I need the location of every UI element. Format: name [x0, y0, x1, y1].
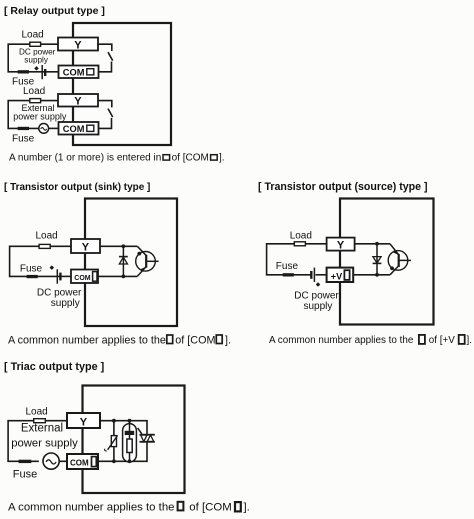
svg-text:power supply: power supply [11, 437, 78, 449]
wire: triac left/top/bottom rail [8, 421, 67, 462]
svg-text:of [COM: of [COM [175, 334, 215, 346]
wire: sink left/top/bottom rail [10, 246, 71, 276]
svg-text:].: ]. [244, 501, 250, 513]
transistor (sink NPN in circle) [136, 246, 159, 276]
svg-text:].: ]. [467, 335, 473, 346]
resistor: Load (source) [294, 242, 305, 246]
terminal box +V (source) [327, 268, 354, 282]
resistor: Load (circuit 1) [30, 42, 41, 46]
junction dot: diode bottom (source) [375, 273, 379, 277]
svg-text:[ Transistor output (source) t: [ Transistor output (source) type ] [258, 181, 428, 193]
resistor: Load (circuit 2) [30, 99, 41, 103]
svg-text:Load: Load [22, 30, 44, 41]
svg-text:COM: COM [70, 459, 89, 468]
caption 2 tall-rect glyph b [216, 335, 222, 344]
varistor branch wire [113, 421, 115, 462]
wire: relay circuit 1 left/top/bottom rail [8, 44, 58, 72]
svg-text:supply: supply [304, 301, 333, 312]
triac symbol [138, 428, 155, 442]
terminal box COM (sink) [71, 270, 98, 284]
terminal box Y (triac) [67, 413, 100, 428]
resistor: Load (triac) [34, 419, 46, 423]
PLC enclosure box (source) [340, 199, 434, 325]
svg-text:A common number applies to the: A common number applies to the [8, 334, 166, 346]
PLC enclosure box (triac) [83, 386, 185, 494]
wire: triac top rail inside box [100, 421, 147, 435]
junction dot: diode bottom (sink) [122, 275, 126, 279]
caption 4 tall-rect glyph b [235, 502, 241, 511]
svg-text:supply: supply [51, 298, 80, 309]
svg-text:of [COM: of [COM [172, 152, 209, 163]
caption 3 tall-rect glyph b [459, 335, 465, 344]
polarity + dot (source) [316, 282, 321, 287]
junction dot: capsule bottom [128, 459, 132, 463]
junction dot: diode top (sink) [122, 244, 126, 248]
caption 2 tall-rect glyph a [167, 335, 173, 344]
svg-text:].: ]. [225, 334, 231, 346]
svg-text:Y: Y [337, 240, 345, 252]
caption 1 [9, 152, 225, 163]
wire: Y to transistor (source) [355, 243, 390, 245]
caption 4 [8, 501, 250, 513]
svg-text:of [+V: of [+V [429, 335, 455, 346]
svg-text:COM: COM [63, 124, 85, 134]
svg-text:Load: Load [26, 406, 48, 417]
terminal box Y (circuit 1) [58, 38, 98, 51]
svg-text:DC power: DC power [294, 291, 339, 302]
relay contact (circuit 2) [98, 101, 113, 129]
polarity + dot (sink) [50, 265, 55, 270]
triac gate lead [138, 428, 142, 434]
svg-text:supply: supply [24, 55, 49, 64]
svg-text:Y: Y [74, 39, 82, 51]
caption 1 square glyph a [163, 155, 170, 160]
wire: relay circuit 2 left/top/bottom rail [8, 101, 58, 129]
battery: DC power supply (sink) [57, 269, 60, 283]
svg-text:Fuse: Fuse [12, 133, 35, 144]
junction dot: diode top (source) [375, 242, 379, 246]
svg-text:Fuse: Fuse [276, 261, 299, 272]
terminal box Y (sink) [71, 239, 100, 253]
svg-text:].: ]. [219, 152, 225, 163]
diode (sink, cathode up) [119, 246, 128, 276]
svg-text:power supply: power supply [13, 112, 67, 122]
fuse F1 (filled) [18, 70, 29, 73]
svg-text:Y: Y [74, 96, 82, 108]
wire: +V to transistor (source) [353, 274, 390, 276]
svg-text:Y: Y [80, 416, 88, 428]
svg-text:Load: Load [290, 230, 312, 241]
PLC enclosure box (sink) [85, 199, 177, 327]
caption 4 tall-rect glyph a [178, 502, 184, 511]
wire: triac bottom rail inside box [98, 442, 147, 461]
terminal box Y (circuit 2) [58, 94, 98, 107]
svg-text:Load: Load [36, 230, 58, 241]
svg-text:COM: COM [74, 275, 91, 282]
relay contact (circuit 1) [98, 44, 113, 72]
battery: DC power supply plates [42, 65, 45, 79]
caption 1 square glyph b [211, 155, 218, 160]
svg-text:Load: Load [23, 86, 45, 97]
polarity + dot (battery 1) [34, 66, 39, 71]
caption 3 [269, 335, 472, 346]
emitter arrowhead (source) [393, 250, 398, 255]
svg-text:COM: COM [63, 68, 85, 78]
caption 3 tall-rect glyph a [419, 335, 425, 344]
wire: COM to transistor emitter (sink) [98, 275, 137, 277]
resistor: Load (sink) [39, 244, 50, 248]
svg-text:External: External [21, 422, 63, 434]
transistor (source PNP in circle) [388, 244, 411, 275]
fuse (triac, filled) [19, 460, 32, 463]
PLC enclosure box (relay) [73, 23, 171, 145]
junction dot: varistor top [112, 419, 116, 423]
varistor symbol [111, 436, 116, 447]
fuse F2 (filled) [18, 127, 29, 130]
svg-text:[ Transistor output (sink) typ: [ Transistor output (sink) type ] [4, 182, 150, 193]
svg-text:A number (1 or more) is entere: A number (1 or more) is entered in [9, 152, 161, 163]
svg-text:[ Triac output type ]: [ Triac output type ] [4, 361, 104, 373]
terminal box Y (source) [327, 238, 355, 251]
svg-text:A common number applies to the: A common number applies to the [8, 501, 175, 513]
svg-text:Y: Y [82, 242, 90, 254]
junction dot: capsule top [128, 419, 132, 423]
diode (source, cathode down) [373, 244, 382, 275]
svg-text:DC power: DC power [37, 287, 82, 298]
fuse (source, filled) [283, 273, 294, 276]
AC source: External power supply [39, 123, 49, 133]
wire: Y to transistor collector (sink) [100, 245, 137, 247]
svg-text:A common number applies to the: A common number applies to the [269, 335, 414, 346]
terminal box COM (circuit 2) [59, 122, 99, 135]
svg-text:Fuse: Fuse [13, 469, 37, 481]
svg-text:+V: +V [331, 271, 342, 281]
terminal box COM (triac) [67, 454, 98, 469]
junction dot: emitter exiting circle (source) [390, 266, 394, 270]
AC source: External power supply (triac) [43, 453, 59, 469]
battery: DC power supply (source, + right) [311, 268, 314, 282]
emitter arrowhead (sink) [140, 267, 145, 272]
terminal box COM (circuit 1) [59, 66, 99, 79]
svg-text:[ Relay output type ]: [ Relay output type ] [4, 5, 105, 17]
svg-text:Fuse: Fuse [20, 263, 43, 274]
caption 2 [8, 334, 231, 346]
junction dot: collector entering circle (sink) [137, 252, 141, 256]
wire: source left/top/bottom rail [267, 244, 327, 275]
svg-text:of [COM: of [COM [189, 501, 231, 513]
fuse (sink, filled) [27, 275, 38, 278]
junction dot: varistor bottom [112, 459, 116, 463]
surge absorber capsule [123, 424, 137, 462]
